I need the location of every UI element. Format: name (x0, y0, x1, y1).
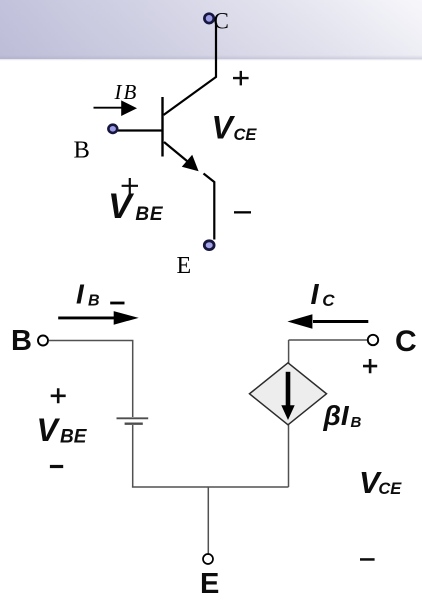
svg-text:B: B (11, 325, 32, 357)
wire: bottom rail (132, 486, 289, 488)
svg-text:I: I (311, 279, 320, 311)
minus sign (VCE -) (234, 211, 251, 213)
wire: battery to bottom rail (132, 425, 134, 487)
IB current arrow (94, 107, 123, 109)
wire: emitter lead (204, 174, 215, 240)
transistor Q1 base bar (161, 97, 163, 157)
battery VBE top plate (117, 417, 149, 419)
svg-text:V: V (212, 110, 236, 146)
svg-text:C: C (322, 291, 335, 310)
wire: B to battery branch (49, 341, 133, 418)
svg-text:CE: CE (378, 480, 402, 498)
svg-text:B: B (74, 136, 90, 163)
minus sign after IB (110, 302, 124, 305)
E terminal circle (203, 554, 213, 564)
IC current arrow (thick, pointing left) (313, 320, 368, 323)
dependent source arrow (286, 372, 291, 406)
wire: rail to E terminal (207, 487, 209, 554)
B terminal circle (38, 336, 48, 346)
battery VBE bottom plate (125, 423, 143, 425)
svg-text:βI: βI (323, 400, 350, 431)
svg-text:I: I (76, 279, 85, 310)
svg-text:V: V (37, 412, 61, 448)
svg-text:BE: BE (135, 204, 164, 225)
svg-text:C: C (214, 8, 229, 33)
wire: diamond to bottom rail (288, 424, 290, 487)
wire: collector lead (C terminal down to base bar) (164, 23, 217, 115)
svg-text:E: E (177, 253, 192, 279)
transistor Q1 emitter arrowhead (182, 155, 199, 171)
top gradient banner (0, 0, 422, 59)
minus sign (VBE - model) (50, 465, 63, 468)
svg-text:B: B (351, 414, 362, 431)
plus sign (VBE + model) (51, 388, 66, 403)
IB current arrow (thick) (58, 316, 114, 319)
plus sign (VBE +) (122, 178, 138, 194)
svg-text:CE: CE (234, 126, 258, 144)
wire: base lead (116, 129, 162, 131)
dependent current source diamond (250, 363, 327, 425)
C terminal circle (368, 335, 378, 345)
svg-text:IB: IB (114, 80, 139, 104)
svg-text:C: C (395, 325, 417, 358)
node E terminal dot (204, 241, 214, 250)
wire: C terminal horizontal (289, 339, 368, 341)
transistor Q1 emitter stroke (164, 142, 187, 161)
plus sign (VCE +) (233, 71, 249, 86)
wire: C branch down to diamond (288, 340, 290, 363)
svg-text:BE: BE (60, 427, 88, 448)
svg-text:B: B (88, 293, 100, 310)
minus sign (VCE - model) (360, 558, 375, 561)
plus sign (VCE + model) (363, 359, 377, 373)
svg-text:V: V (108, 186, 135, 226)
node B terminal dot (108, 125, 117, 133)
node C terminal dot (204, 14, 213, 23)
svg-text:E: E (200, 568, 219, 600)
